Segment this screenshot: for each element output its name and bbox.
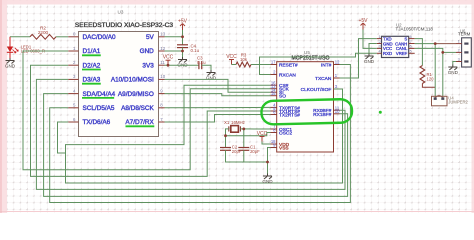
- wire U5 RXCAN to U2 RXD: [260, 53, 377, 74]
- U3 pin 11 (3V3): [142, 60, 165, 69]
- svg-text:2: 2: [378, 40, 380, 44]
- U3 pin 10 (A10/D10/MOSI): [111, 74, 166, 83]
- svg-text:U3: U3: [118, 10, 124, 15]
- U2 pin 2 (GND): [377, 40, 393, 47]
- U3 pin 3 (D3/A3): [68, 74, 101, 84]
- svg-text:2: 2: [458, 48, 460, 52]
- wire U3 pin8 SCK to U5 TX0RTS#: [165, 106, 271, 108]
- wire branch to U5 CS#: [66, 85, 271, 153]
- svg-text:TJA1050T/CM,118: TJA1050T/CM,118: [396, 27, 434, 32]
- svg-text:MCP2515T-I/SO: MCP2515T-I/SO: [291, 55, 329, 61]
- U3 pin 2 (D2/A2): [68, 60, 101, 70]
- wire +5V to U2 VCC: [363, 30, 377, 49]
- svg-text:17: 17: [271, 60, 276, 65]
- svg-text:VCC: VCC: [257, 131, 268, 137]
- svg-text:TX/D6/A6: TX/D6/A6: [83, 119, 111, 126]
- U2 pin 3 (VCC): [377, 45, 392, 52]
- U5 pin 2 (RXCAN): [271, 70, 297, 79]
- junction CANH / R1 branch: [434, 42, 437, 45]
- power flag VCC at R3: [226, 54, 237, 65]
- svg-text:20pF: 20pF: [250, 149, 260, 154]
- U5 pin 18 (VDD): [271, 139, 290, 148]
- svg-text:X1: X1: [224, 120, 230, 125]
- U3 pin 9 (A9/D9/MISO): [118, 88, 165, 97]
- junction VCC/3V3: [167, 64, 170, 67]
- capacitor C2: [220, 145, 242, 154]
- U5 pin 8 (OSC2): [271, 128, 293, 137]
- svg-text:D1/A1: D1/A1: [83, 48, 101, 55]
- svg-text:0.1u: 0.1u: [197, 60, 206, 65]
- svg-text:3V3: 3V3: [142, 62, 154, 69]
- U5 pin 7 (OSC1): [271, 124, 293, 133]
- resistor R2: [30, 26, 56, 40]
- svg-text:10k: 10k: [240, 57, 248, 62]
- U5 pin 15 (SO): [271, 91, 287, 100]
- svg-text:0.1u: 0.1u: [191, 48, 200, 53]
- svg-text:VCC: VCC: [226, 54, 237, 60]
- svg-text:D2/A2: D2/A2: [83, 62, 101, 69]
- U6 pin 1: [456, 40, 469, 45]
- wire caps bottom rail to GND: [226, 150, 268, 162]
- op-amp U3 SEEEDSTUDIO XIAO-ESP32-C3 module body: [79, 32, 159, 137]
- svg-text:GND: GND: [5, 64, 16, 69]
- svg-text:3: 3: [458, 58, 460, 62]
- wire U3 D2/A2 to U5 TX1RTS#: [31, 65, 271, 176]
- wire U3 TX/D6 to U5 CLKOUT/SOF: [58, 89, 343, 183]
- svg-text:TXCAN: TXCAN: [315, 76, 332, 82]
- U3 pin 13 (5V): [146, 32, 166, 41]
- svg-text:CLKOUT/SOF: CLKOUT/SOF: [301, 87, 332, 93]
- svg-text:15: 15: [271, 91, 276, 96]
- U5 pin 16 (CS#): [271, 80, 289, 89]
- resistor R3: [236, 53, 251, 67]
- wire crystal right to OSC1 and C1: [240, 128, 270, 130]
- U3 pin 6 (TX/D6/A6): [68, 117, 110, 126]
- svg-text:RXCAN: RXCAN: [279, 73, 296, 79]
- svg-text:VREF: VREF: [396, 51, 408, 56]
- U2 pin 6 (CANL): [396, 45, 415, 52]
- ground flag at U6 pin3: [448, 65, 459, 76]
- U6 pin 2: [456, 48, 469, 53]
- svg-text:8: 8: [410, 35, 412, 39]
- power flag +5V at U3 5V pin: [178, 19, 188, 31]
- ground flag right of C3: [206, 70, 217, 81]
- U5 pin 3 (CLKOUT/SOF): [301, 84, 340, 93]
- U2 pin 5 (VREF): [396, 50, 415, 57]
- junction GND/C4/pin12: [181, 50, 184, 53]
- svg-text:DAC/D0/A0: DAC/D0/A0: [83, 34, 116, 41]
- ground flag below C4: [177, 57, 188, 68]
- svg-text:A7/D7/RX: A7/D7/RX: [125, 119, 154, 126]
- op-amp U5 MCP2515T-I/SO CAN controller body: [277, 62, 334, 152]
- wire U3 D3/A3 to U5 RX0BF#: [36, 79, 345, 189]
- capacitor C4: [177, 44, 200, 54]
- U5 pin 1 (TXCAN): [315, 73, 339, 82]
- svg-text:TERM: TERM: [458, 31, 471, 36]
- wire U3 pin13 5V net: [165, 36, 183, 38]
- svg-text:16MHz: 16MHz: [231, 120, 245, 125]
- wire U3 SCL/D5 to U5 INT#: [50, 65, 351, 203]
- svg-text:6: 6: [410, 45, 412, 49]
- U5 pin 12 (INT#): [321, 60, 340, 69]
- U5 pin 9 (VSS): [271, 143, 289, 152]
- U5 pin 5 (TX1RTS#): [271, 106, 301, 115]
- wire U3 pin10 MOSI to U5 SI: [165, 79, 271, 92]
- power flag VCC at U3 3V3 pin: [163, 55, 174, 65]
- U5 pin 4 (TX0RTS#): [271, 103, 301, 112]
- U2 pin 4 (RXD): [377, 50, 392, 57]
- svg-text:D3/A3: D3/A3: [83, 77, 101, 84]
- svg-text:GND: GND: [364, 59, 375, 64]
- svg-text:TX2RTS#: TX2RTS#: [279, 113, 300, 119]
- wire CANH to TERM pin1 and jumper: [415, 43, 436, 45]
- svg-text:12: 12: [160, 46, 165, 51]
- ground flag below LED1: [5, 58, 16, 69]
- svg-text:11: 11: [160, 60, 165, 65]
- junction CANL / TERM2: [441, 51, 444, 54]
- node highlight ellipse around RTS/BF pins: [261, 99, 352, 125]
- U3 pin 7 (A7/D7/RX): [125, 117, 164, 127]
- wire U3 pin9 MISO to U5 SO: [165, 94, 271, 96]
- jumper U4 JUMPER2: [432, 95, 469, 106]
- svg-text:GND: GND: [262, 179, 273, 184]
- U5 pin 17 (RESET#): [271, 60, 298, 69]
- svg-text:10: 10: [335, 109, 340, 114]
- svg-text:7: 7: [410, 40, 412, 44]
- junction crystal left / OSC2: [224, 134, 227, 137]
- U3 pin 12 (GND): [140, 46, 166, 55]
- U3 pin 0 (DAC/D0/A0): [68, 32, 116, 41]
- svg-text:A9/D9/MISO: A9/D9/MISO: [118, 91, 154, 98]
- svg-text:INT#: INT#: [321, 63, 332, 69]
- svg-text:SEEEDSTUDIO XIAO-ESP32-C3: SEEEDSTUDIO XIAO-ESP32-C3: [75, 22, 174, 29]
- wire C3 to ground: [202, 65, 211, 70]
- wire R1 bottom to jumper pin1: [422, 84, 435, 88]
- U6 pin 3: [456, 58, 469, 63]
- svg-text:4: 4: [378, 50, 380, 54]
- capacitor C3: [197, 56, 206, 70]
- wire U2 S pin to R1: [415, 39, 423, 66]
- U5 pin 6 (TX2RTS#): [271, 110, 301, 119]
- wire U3 D1/A1 to U5 SCK: [23, 51, 271, 170]
- U5 pin 11 (RX0BF#): [313, 105, 340, 114]
- wire U5 VSS to GND: [268, 148, 271, 174]
- svg-text:12: 12: [335, 60, 340, 65]
- svg-text:VCC: VCC: [163, 55, 174, 61]
- resistor R1: [420, 66, 434, 84]
- svg-text:OSC2: OSC2: [279, 131, 292, 137]
- node stray green dot: [379, 111, 382, 114]
- svg-text:A10/D10/MOSI: A10/D10/MOSI: [111, 77, 154, 84]
- svg-text:GND: GND: [140, 48, 155, 55]
- U2 pin 7 (CANH): [395, 40, 415, 47]
- U3 pin 5 (SCL/D5/A5): [68, 103, 115, 112]
- svg-text:1: 1: [458, 40, 460, 44]
- wire VCC to U5 VDD: [262, 142, 271, 145]
- wire C4 bottom to GND and U3 pin12: [182, 48, 184, 57]
- svg-text:10: 10: [160, 74, 165, 79]
- capacitor C1: [238, 145, 260, 154]
- wire U2 GND pin to ground: [369, 44, 377, 54]
- svg-text:RXD: RXD: [383, 51, 392, 56]
- LED LED1: [7, 37, 45, 58]
- wire U3 pin7 RX to U5 TX2RTS#: [165, 115, 271, 123]
- svg-text:13: 13: [160, 32, 165, 37]
- svg-text:RX1BF#: RX1BF#: [313, 112, 331, 118]
- junction caps rail / VSS: [266, 161, 269, 164]
- svg-text:2200: 2200: [38, 30, 49, 35]
- svg-text:120: 120: [427, 77, 435, 82]
- ground flag below U5: [262, 174, 273, 185]
- crystal X1 16MHz: [224, 120, 245, 132]
- U3 pin 4 (SDA/D4/A4): [68, 88, 115, 98]
- power flag +5V at U2 VCC: [358, 18, 368, 30]
- svg-text:+5V: +5V: [358, 18, 368, 24]
- U2 pin 1 (TXD): [377, 35, 392, 42]
- svg-text:3: 3: [378, 45, 380, 49]
- svg-text:SO: SO: [279, 94, 286, 100]
- power flag VCC at U5 VDD: [257, 131, 268, 142]
- wire net D0 from LED1 to R2 to U3 pin0: [10, 36, 30, 38]
- svg-text:A8/D8/SCK: A8/D8/SCK: [121, 105, 154, 112]
- wire crystal left to C2 and OSC2 net: [226, 129, 229, 148]
- svg-text:JUMPER2: JUMPER2: [448, 100, 468, 105]
- wire U5 TXCAN to U2 TXD: [340, 39, 377, 78]
- wire R3 to U5 RESET#: [251, 64, 271, 66]
- wire U3 pin11 3V3 net to C3: [165, 64, 199, 66]
- junction crystal right / C1: [242, 127, 245, 130]
- svg-text:5: 5: [410, 50, 412, 54]
- U5 pin 14 (SI): [271, 87, 284, 96]
- svg-text:RESET#: RESET#: [279, 63, 298, 69]
- wire U3 SDA/D4 to U5 RX1BF#: [44, 94, 348, 197]
- U5 pin 10 (RX1BF#): [313, 109, 340, 118]
- U3 pin 8 (A8/D8/SCK): [121, 103, 164, 112]
- svg-text:1: 1: [378, 35, 380, 39]
- svg-text:SDA/D4/A4: SDA/D4/A4: [83, 91, 116, 98]
- svg-text:GND: GND: [448, 70, 459, 75]
- U2 pin 8 (S): [404, 35, 414, 42]
- svg-text:+5V: +5V: [178, 19, 188, 25]
- wire U6 pin3 to ground: [453, 62, 456, 65]
- svg-text:5V: 5V: [146, 34, 155, 41]
- op-amp U2 TJA1050 CAN transceiver body: [382, 36, 409, 57]
- U3 pin 1 (D1/A1): [68, 46, 101, 56]
- wire CANL to TERM pin2 and jumper pin2: [415, 48, 443, 96]
- U5 pin 13 (SCK): [271, 84, 290, 93]
- svg-text:VSS: VSS: [279, 146, 289, 152]
- junction 5V/C4: [181, 35, 184, 38]
- svg-text:SCL/D5/A5: SCL/D5/A5: [83, 105, 115, 112]
- ground flag below U2 GND: [364, 54, 375, 65]
- connector U6 TERM body: [462, 38, 472, 67]
